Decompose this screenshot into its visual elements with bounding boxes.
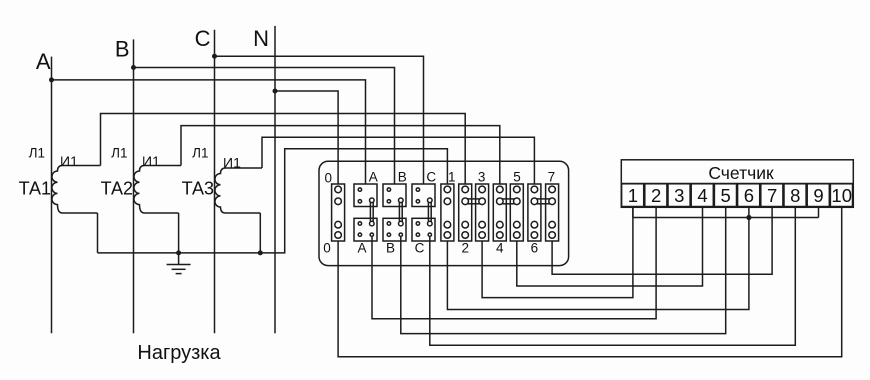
- terminal strip 0: [332, 184, 345, 241]
- svg-text:6: 6: [531, 241, 539, 256]
- wire strip 0 to meter terminal 10: [338, 207, 842, 356]
- node C junction dot: [212, 54, 217, 59]
- wire N tap to test box 0 strip: [275, 91, 338, 184]
- shorting link strips 4-5: [502, 199, 514, 204]
- svg-text:7: 7: [767, 185, 777, 206]
- svg-text:0: 0: [324, 171, 332, 186]
- svg-text:A: A: [36, 49, 51, 74]
- wire square C to meter terminal 8: [430, 207, 796, 345]
- svg-text:C: C: [195, 26, 211, 51]
- svg-text:ТА2: ТА2: [101, 178, 133, 198]
- svg-text:B: B: [386, 241, 395, 256]
- wire TA3 I2 lead to common bus: [259, 213, 261, 253]
- svg-text:4: 4: [496, 241, 504, 256]
- svg-text:Л1: Л1: [192, 146, 208, 161]
- wire strip 3 to meter terminal 1: [482, 207, 633, 297]
- wire A voltage tap to test box A square: [52, 80, 366, 184]
- wire phase B vertical line: [133, 39, 135, 333]
- svg-text:10: 10: [831, 185, 852, 206]
- svg-text:Счетчик: Счетчик: [708, 163, 774, 183]
- node TA3 common junction dot: [258, 250, 263, 255]
- svg-text:1: 1: [628, 185, 638, 206]
- wire neutral N vertical line: [274, 26, 276, 333]
- svg-text:A: A: [357, 241, 366, 256]
- terminal strip 5: [510, 184, 523, 241]
- terminal square pair A: [354, 184, 377, 241]
- transformer TA1 secondary winding: [52, 166, 101, 214]
- svg-text:1: 1: [448, 169, 456, 184]
- svg-text:3: 3: [478, 169, 486, 184]
- meter outline: [621, 160, 853, 208]
- wire square A to meter terminal 2: [372, 207, 656, 318]
- svg-text:5: 5: [721, 185, 731, 206]
- svg-text:8: 8: [790, 185, 800, 206]
- svg-text:Нагрузка: Нагрузка: [137, 342, 221, 364]
- wire phase A vertical line: [51, 57, 53, 334]
- node TA2 common junction dot: [176, 250, 181, 255]
- node N junction dot: [273, 89, 278, 94]
- terminal strip 1: [441, 184, 454, 241]
- svg-text:C: C: [415, 241, 425, 256]
- terminal strip 6: [528, 184, 541, 241]
- svg-text:B: B: [398, 169, 407, 184]
- meter title separator: [621, 183, 853, 185]
- shorting link strips 2-3: [468, 199, 480, 204]
- meter terminal boxes: [622, 184, 853, 207]
- terminal strip 3: [476, 184, 489, 241]
- transformer TA2 secondary winding: [134, 166, 181, 214]
- test box outline: [319, 161, 569, 265]
- transformer TA3 secondary winding: [215, 168, 262, 213]
- svg-text:И1: И1: [223, 155, 241, 171]
- wire phase C vertical line: [214, 30, 216, 334]
- wire square B to meter terminal 5: [401, 207, 726, 333]
- wire meter terminal 3 to bus: [632, 207, 634, 217]
- svg-text:N: N: [253, 26, 269, 51]
- svg-text:Л1: Л1: [111, 146, 127, 161]
- svg-text:2: 2: [461, 241, 469, 256]
- svg-text:7: 7: [548, 169, 556, 184]
- svg-text:4: 4: [697, 185, 707, 206]
- svg-text:И1: И1: [142, 153, 160, 169]
- terminal square pair C: [412, 184, 435, 241]
- svg-text:C: C: [426, 169, 436, 184]
- wire B voltage tap to test box B square: [134, 68, 395, 185]
- wire TA3 I1 lead to strip 6: [262, 137, 534, 184]
- svg-text:ТА3: ТА3: [182, 178, 214, 198]
- wire strip 5 to meter terminal 4: [517, 207, 703, 286]
- wire meter terminal 9 to bus: [818, 207, 820, 217]
- svg-text:0: 0: [323, 241, 331, 256]
- wire TA2 I2 lead to common bus: [178, 213, 180, 253]
- svg-text:ТА1: ТА1: [19, 178, 51, 198]
- svg-text:9: 9: [813, 185, 823, 206]
- svg-text:5: 5: [513, 169, 521, 184]
- wire TA1 I2 lead to common bus: [97, 213, 99, 253]
- terminal strip 4: [493, 184, 506, 241]
- terminal strip 7: [546, 184, 559, 241]
- svg-text:2: 2: [651, 185, 661, 206]
- shorting link strips 6-7: [537, 199, 550, 204]
- terminal strip 2: [459, 184, 472, 241]
- svg-text:6: 6: [744, 185, 754, 206]
- ground symbol: [167, 253, 191, 274]
- wire TA1 I1 lead to strip 2: [101, 114, 466, 185]
- terminal square pair B: [383, 184, 406, 241]
- svg-text:3: 3: [674, 185, 684, 206]
- wire strip 7 to meter terminal 7: [552, 207, 772, 274]
- node A junction dot: [49, 77, 54, 82]
- wire C voltage tap to test box C square: [215, 56, 424, 184]
- wire strip 1 to meter terminal 6: [447, 207, 749, 309]
- svg-text:B: B: [115, 37, 130, 62]
- wire secondary common bus: [98, 149, 448, 253]
- svg-text:И1: И1: [60, 153, 78, 169]
- svg-text:Л1: Л1: [29, 146, 45, 161]
- wire TA2 I1 lead to strip 4: [181, 126, 500, 184]
- node B junction dot: [131, 65, 136, 70]
- wire meter current common bus 3-6-9: [633, 217, 819, 219]
- svg-text:A: A: [369, 169, 378, 184]
- node bus junction dot at terminal 6: [746, 215, 751, 220]
